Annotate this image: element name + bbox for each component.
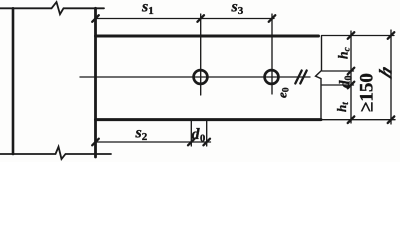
tick h bottom [388, 116, 395, 123]
dimension line hc-d0-ht [350, 31, 352, 123]
column left flange line [12, 8, 15, 154]
svg-text:d0: d0 [338, 76, 355, 89]
tick s start [92, 15, 99, 22]
column right flange line [94, 8, 97, 157]
beam centerline [80, 76, 310, 78]
svg-text:s2: s2 [135, 125, 148, 144]
tick hc top [348, 32, 355, 39]
svg-text:h: h [376, 62, 396, 81]
e0 tick 1 [295, 71, 301, 84]
extension line through hole 2 [271, 14, 273, 94]
svg-text:≥150: ≥150 [357, 73, 378, 112]
dimension line s1-s3 [96, 18, 275, 20]
beam cut edge with break [316, 36, 322, 120]
tick d0 end [203, 139, 210, 146]
svg-text:s1: s1 [141, 0, 154, 17]
right top extension line [322, 35, 395, 37]
tick d0/ht boundary [348, 82, 355, 89]
tick s2/d0 boundary [188, 139, 195, 146]
bolt hole circle 1 [194, 70, 208, 84]
svg-text:s3: s3 [231, 0, 244, 17]
bolt hole circle 2 [265, 70, 279, 84]
svg-text:ht: ht [334, 102, 350, 112]
tick h top [388, 32, 395, 39]
tick hc/d0 boundary [348, 68, 355, 75]
hole top extension line [322, 70, 354, 72]
svg-text:e0: e0 [275, 87, 292, 98]
hole bottom extension line [322, 84, 354, 86]
beam top edge [96, 35, 319, 38]
tick s2 start [92, 139, 99, 146]
column bottom edge with break [0, 147, 111, 159]
tick ht bottom [348, 116, 355, 123]
svg-text:d0: d0 [192, 126, 206, 145]
d0 extension line right [206, 121, 208, 147]
e0 tick 2 [300, 71, 306, 84]
dimension line h [390, 30, 392, 124]
right bottom extension line [322, 119, 396, 121]
d0 extension line left [190, 121, 192, 147]
dimension line s2-d0 [96, 141, 211, 143]
tick s1/s3 boundary [197, 15, 204, 22]
tick s3 end [269, 15, 276, 22]
column top edge with break [0, 2, 104, 14]
extension line through hole 1 [200, 14, 202, 95]
svg-text:hc: hc [336, 46, 353, 59]
beam bottom edge [96, 118, 322, 121]
